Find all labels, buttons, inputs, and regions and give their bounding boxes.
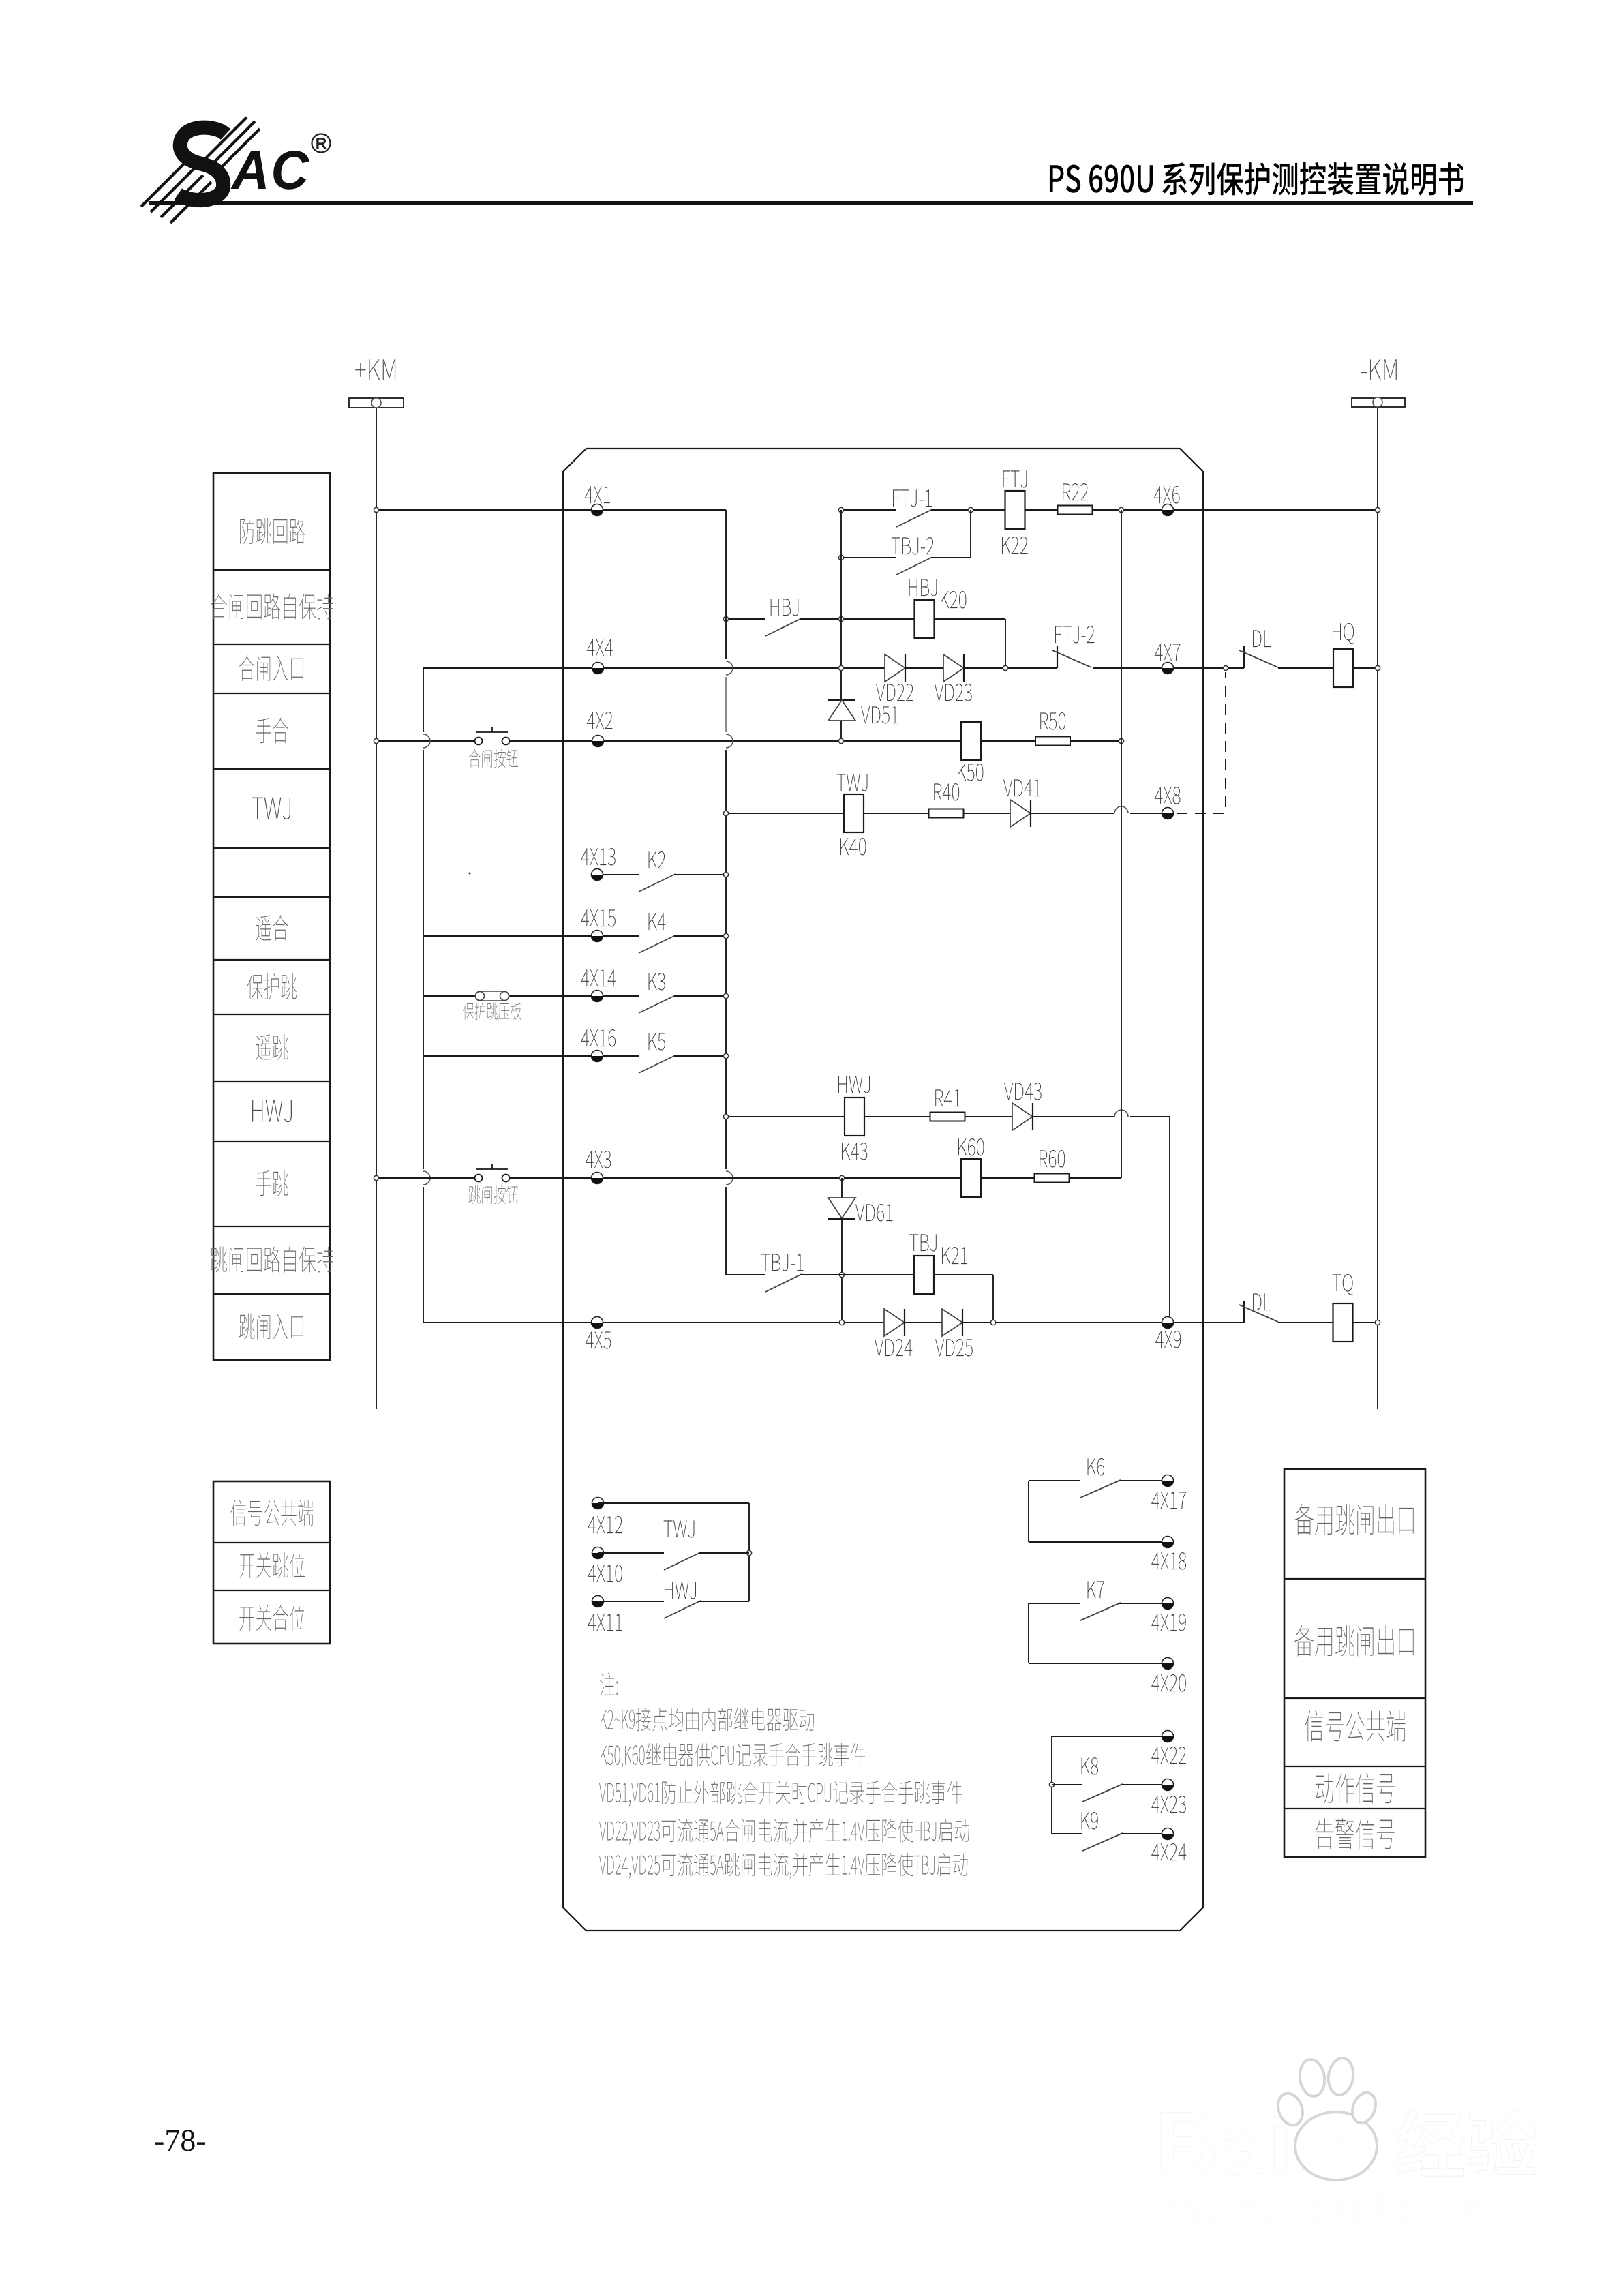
terminal 4X11 bbox=[592, 1596, 604, 1607]
logo (R) mark bbox=[312, 134, 331, 153]
diode VD22 bbox=[885, 654, 905, 682]
label VD23 bbox=[935, 684, 972, 701]
push button 跳闸按钮 bbox=[475, 1175, 483, 1182]
left label 手合 bbox=[256, 717, 288, 743]
relay coil TQ bbox=[1333, 1303, 1353, 1342]
wire FTJ coil to R22 bbox=[1025, 509, 1059, 511]
wire x621 riser upper bbox=[423, 668, 424, 732]
junction row C x1234 bbox=[838, 616, 843, 621]
label 4X6 bbox=[1154, 486, 1180, 504]
label DL trip bbox=[1253, 1293, 1271, 1310]
terminal 4X1 bbox=[592, 504, 603, 516]
wire +KM to 4X1 to corner bbox=[376, 509, 726, 511]
wire FTJ-1 to FTJ coil bbox=[931, 509, 1005, 511]
left column separator bbox=[213, 896, 330, 898]
junction row K x1065 bbox=[723, 1114, 728, 1119]
left column separator bbox=[213, 847, 330, 849]
wire R22 to -KM bbox=[1093, 509, 1378, 511]
right label column box bbox=[1284, 1469, 1425, 1857]
junction DL link top bbox=[1224, 666, 1228, 671]
logo hatch bottom-left bbox=[141, 162, 186, 207]
left label TWJ bbox=[252, 798, 290, 820]
wire DL to TQ bbox=[1278, 1322, 1333, 1323]
wire VD25 to DL bbox=[962, 1322, 1244, 1323]
terminal 4X13 bbox=[592, 869, 603, 881]
terminal 4X6 bbox=[1162, 504, 1174, 516]
watermark jingyan.baidu.com bbox=[1154, 2192, 1499, 2229]
junction x1235 row M bbox=[839, 1272, 844, 1277]
wire VD41 to 4X8 bbox=[1031, 813, 1114, 814]
contact FTJ-2 bbox=[1057, 646, 1058, 668]
hop row F x1645 bbox=[1114, 806, 1128, 813]
junction row D -KM bbox=[1375, 665, 1380, 670]
wire TBJ-2 to riser bbox=[931, 557, 971, 558]
junction row N x1457 bbox=[990, 1320, 995, 1325]
label 开关跳位 bbox=[239, 1552, 305, 1578]
note line 2 bbox=[601, 1743, 865, 1769]
label 信号公共端 bbox=[231, 1500, 314, 1526]
relay coil HQ bbox=[1333, 649, 1353, 687]
wire K6 to 4X17 bbox=[1119, 1480, 1168, 1481]
contact HBJ bbox=[765, 618, 802, 636]
resistor R22 bbox=[1058, 506, 1093, 515]
wire K6 row bbox=[1029, 1480, 1080, 1481]
logo AC text bbox=[230, 151, 309, 190]
logo hatch top-right bbox=[202, 117, 247, 162]
contact K7 bbox=[1080, 1603, 1121, 1620]
label HQ bbox=[1333, 623, 1354, 644]
wire row K5 left bbox=[423, 1055, 639, 1057]
label 4X22 bbox=[1151, 1747, 1186, 1764]
device boundary box bbox=[563, 449, 1203, 1931]
wire TBJ-2 riser bbox=[970, 510, 971, 558]
wire x1716 riser down bbox=[1169, 1117, 1170, 1323]
wire 4X10 row right bbox=[699, 1552, 749, 1554]
wire x621 riser lower bbox=[423, 1187, 424, 1323]
watermark Bai bbox=[1161, 2109, 1286, 2174]
wire row A FTJ-1 section bbox=[841, 509, 896, 511]
terminal 4X4 bbox=[592, 663, 604, 674]
hop row K x1645 bbox=[1114, 1110, 1128, 1117]
label TWJ coil bbox=[837, 774, 868, 791]
label 动作信号 bbox=[1316, 1772, 1395, 1803]
wire row K3 left bbox=[423, 995, 639, 997]
label 4X8 bbox=[1155, 787, 1181, 804]
junction K8 tap bbox=[1049, 1782, 1054, 1787]
contact TBJ-2 bbox=[896, 557, 932, 575]
label 备用跳闸出口 1 bbox=[1294, 1504, 1413, 1535]
wire row K5 right bbox=[674, 1055, 726, 1057]
dashed DL linkage bbox=[1177, 672, 1226, 813]
terminal 4X5 bbox=[592, 1317, 603, 1329]
junction row B left bbox=[838, 555, 843, 560]
label 4X2 bbox=[587, 712, 613, 729]
label K40 bbox=[840, 838, 866, 856]
relay coil TBJ bbox=[914, 1256, 934, 1294]
note line 3 bbox=[599, 1781, 962, 1807]
junction row D x1475 bbox=[1003, 665, 1007, 670]
note heading bbox=[600, 1673, 618, 1696]
wire VD24-VD25 bbox=[905, 1322, 942, 1323]
junction row K2 x1065 bbox=[723, 872, 728, 877]
label 4X10 bbox=[588, 1565, 622, 1582]
label R22 bbox=[1063, 483, 1088, 500]
terminal 4X16 bbox=[592, 1051, 603, 1062]
junction row C x1065 bbox=[723, 616, 728, 621]
label TBJ coil bbox=[909, 1234, 936, 1251]
label VD24 bbox=[875, 1339, 912, 1356]
stray dot artifact bbox=[468, 872, 470, 874]
label K43 bbox=[842, 1143, 867, 1160]
label R50 bbox=[1040, 712, 1065, 730]
wire R41 to VD43 bbox=[965, 1116, 1012, 1117]
label 4X12 bbox=[588, 1516, 622, 1533]
relay coil K20 bbox=[915, 600, 935, 638]
wire TBJ-1 to TBJ bbox=[800, 1274, 914, 1275]
label 4X19 bbox=[1151, 1614, 1185, 1631]
left column separator bbox=[213, 959, 330, 961]
junction at +KM row A bbox=[374, 507, 378, 512]
label K22 bbox=[1002, 537, 1027, 554]
label HBJ coil bbox=[909, 579, 937, 596]
label K5 bbox=[649, 1033, 665, 1050]
contact K8 bbox=[1082, 1784, 1123, 1802]
contact DL (trip) bbox=[1243, 1301, 1245, 1323]
left label 合闸回路自保持 bbox=[211, 593, 333, 619]
contact K4 bbox=[639, 935, 676, 953]
label VD22 bbox=[876, 684, 913, 701]
wire x1645 riser bbox=[1121, 510, 1122, 1177]
terminal 4X17 bbox=[1162, 1475, 1174, 1487]
wire button to K60 bbox=[510, 1177, 962, 1179]
label FTJ-2 bbox=[1055, 626, 1094, 644]
wire row C left bbox=[726, 618, 765, 620]
resistor R50 bbox=[1035, 737, 1070, 746]
label 4X9 bbox=[1155, 1331, 1181, 1348]
label 4X14 bbox=[581, 969, 616, 986]
wire 4X11 row right bbox=[699, 1601, 749, 1602]
hop x1065 row L bbox=[726, 1171, 733, 1185]
hop x621 row E bbox=[423, 734, 430, 748]
junction row D x1234 bbox=[838, 665, 843, 670]
contact FTJ-1 bbox=[896, 509, 932, 527]
label K3 bbox=[649, 973, 665, 991]
label VD43 bbox=[1004, 1083, 1042, 1100]
wire K7 row bbox=[1029, 1603, 1080, 1604]
wire HQ to -KM bbox=[1353, 667, 1378, 669]
terminal 4X3 bbox=[592, 1173, 603, 1184]
+KM terminal bar bbox=[349, 398, 404, 408]
wire +KM to button bbox=[376, 740, 475, 742]
hop x1065 row E bbox=[726, 734, 733, 748]
terminal 4X23 bbox=[1162, 1779, 1174, 1791]
left label 防跳回路 bbox=[240, 518, 305, 544]
left label 跳闸回路自保持 bbox=[211, 1246, 333, 1272]
wire 4X22 row bbox=[1052, 1736, 1168, 1737]
wire R50 to x1645 bbox=[1070, 740, 1121, 742]
left label 跳闸入口 bbox=[239, 1313, 303, 1339]
watermark du bbox=[1304, 2127, 1359, 2163]
watermark paw pad bbox=[1295, 2112, 1377, 2180]
left column separator bbox=[213, 768, 330, 770]
note line 1 bbox=[601, 1708, 814, 1731]
wire K7 to 4X19 bbox=[1119, 1603, 1168, 1604]
push button 合闸按钮 bbox=[475, 738, 483, 745]
label K4 bbox=[649, 913, 666, 930]
junction position group bbox=[746, 1550, 751, 1555]
right column separator bbox=[1284, 1578, 1425, 1580]
contact TWJ position bbox=[664, 1552, 701, 1570]
wire R40 to VD41 bbox=[964, 813, 1010, 814]
header rule bbox=[149, 201, 1473, 205]
wire x1065 riser 4 bbox=[725, 1187, 727, 1275]
junction TBJ-2 riser top bbox=[968, 507, 973, 512]
hop x1065 row D bbox=[726, 661, 733, 675]
wire x1065 riser 2 bbox=[725, 677, 727, 732]
terminal 4X12 bbox=[592, 1498, 604, 1509]
label HBJ contact bbox=[771, 599, 799, 616]
wire TQ to -KM bbox=[1352, 1322, 1378, 1323]
wire VD22-VD23 bbox=[905, 667, 943, 669]
label K9 bbox=[1082, 1812, 1098, 1830]
label TQ bbox=[1333, 1274, 1353, 1295]
label K7 bbox=[1088, 1581, 1104, 1598]
right column separator bbox=[1284, 1766, 1425, 1767]
wire row M left bbox=[726, 1274, 765, 1275]
wire x1234 riser bbox=[840, 510, 842, 700]
label K50 bbox=[958, 764, 983, 781]
junction row N x1235 bbox=[839, 1320, 844, 1325]
wire 4X18 row bbox=[1029, 1541, 1168, 1543]
wire TBJ riser down bbox=[992, 1275, 994, 1323]
label K21 bbox=[942, 1247, 967, 1264]
label VD41 bbox=[1003, 779, 1040, 796]
+KM rail wire bbox=[376, 408, 377, 1409]
label FTJ-1 bbox=[893, 489, 932, 507]
contact K6 bbox=[1080, 1480, 1121, 1498]
junction row E x1234 bbox=[838, 738, 843, 743]
terminal 4X7 bbox=[1162, 663, 1174, 674]
left label 遥合 bbox=[256, 915, 288, 941]
label 4X17 bbox=[1151, 1492, 1186, 1509]
label K6 bbox=[1088, 1458, 1104, 1476]
wire row F left bbox=[726, 813, 844, 814]
junction row A x1645 bbox=[1119, 507, 1123, 512]
contact K3 bbox=[639, 995, 676, 1013]
wire x1235 bottom bbox=[841, 1219, 843, 1323]
watermark toes bbox=[1274, 2090, 1307, 2129]
label 4X7 bbox=[1155, 644, 1181, 661]
left label column box bbox=[213, 473, 330, 1360]
wire VD43 to corner bbox=[1033, 1116, 1114, 1117]
diode VD43 bbox=[1012, 1103, 1033, 1130]
wire K7 bracket bbox=[1028, 1603, 1029, 1663]
terminal 4X14 bbox=[592, 991, 603, 1002]
diode VD25 bbox=[942, 1309, 962, 1336]
left label 遥跳 bbox=[256, 1034, 288, 1060]
separator bbox=[213, 1542, 330, 1543]
label 跳闸按钮 bbox=[469, 1185, 519, 1204]
contact DL (close) bbox=[1243, 646, 1245, 668]
-KM rail wire bbox=[1377, 407, 1378, 1409]
junction row L x1235 bbox=[839, 1175, 844, 1180]
contact TBJ-1 bbox=[765, 1274, 802, 1292]
wire 4X20 row bbox=[1029, 1663, 1168, 1664]
label 4X11 bbox=[588, 1614, 622, 1631]
wire row K left bbox=[726, 1116, 845, 1117]
diode VD41 bbox=[1010, 800, 1031, 827]
left column separator bbox=[213, 693, 330, 694]
wire HWJ to R41 bbox=[864, 1116, 930, 1117]
resistor R40 bbox=[929, 809, 964, 818]
left label 保护跳 bbox=[247, 973, 297, 999]
relay coil K60 bbox=[961, 1159, 981, 1197]
terminal 4X10 bbox=[592, 1547, 604, 1559]
wire x621 riser mid bbox=[423, 750, 424, 1169]
wire x1065 riser 1 bbox=[725, 510, 727, 659]
label 开关合位 bbox=[239, 1605, 305, 1631]
diode VD61 bbox=[828, 1198, 855, 1218]
label 保护跳压板 bbox=[463, 1003, 521, 1020]
label 4X5 bbox=[586, 1331, 611, 1348]
wire x1065 riser 3 bbox=[725, 750, 727, 1169]
terminal 4X19 bbox=[1162, 1598, 1174, 1610]
contact K9 bbox=[1082, 1833, 1123, 1851]
label R60 bbox=[1040, 1150, 1065, 1168]
label 4X13 bbox=[581, 848, 615, 866]
label 4X24 bbox=[1151, 1843, 1186, 1860]
wire 4X11 row left bbox=[598, 1601, 664, 1602]
diode VD51 bbox=[828, 699, 855, 701]
relay coil FTJ bbox=[1005, 491, 1025, 529]
label VD25 bbox=[935, 1339, 973, 1357]
junction row K5 x1065 bbox=[723, 1053, 728, 1058]
terminal 4X24 bbox=[1162, 1828, 1174, 1840]
label 告警信号 bbox=[1316, 1818, 1395, 1849]
wire row K4 left bbox=[423, 935, 639, 937]
-KM terminal bar bbox=[1352, 398, 1405, 407]
label K2 bbox=[649, 851, 665, 868]
contact K5 bbox=[639, 1055, 676, 1073]
wire K8K9 bracket bbox=[1051, 1736, 1052, 1834]
left label HWJ bbox=[252, 1100, 292, 1123]
terminal 4X15 bbox=[592, 931, 603, 942]
label 4X18 bbox=[1151, 1552, 1186, 1569]
wire position group riser bbox=[748, 1503, 750, 1601]
wire K8 to 4X23 bbox=[1121, 1784, 1168, 1785]
terminal 4X18 bbox=[1162, 1537, 1174, 1548]
wire K9 to 4X24 bbox=[1121, 1833, 1168, 1834]
junction row K4 x1065 bbox=[723, 933, 728, 938]
resistor R41 bbox=[930, 1113, 965, 1121]
wire x1645 corner join bbox=[1121, 1177, 1122, 1178]
hop x621 row L bbox=[423, 1171, 430, 1185]
wire K6 bracket bbox=[1028, 1481, 1029, 1542]
junction row N -KM bbox=[1375, 1320, 1380, 1325]
terminal 4X9 bbox=[1162, 1317, 1174, 1329]
wire TBJ to riser bbox=[934, 1274, 993, 1275]
wire HBJ to K20 bbox=[800, 618, 915, 620]
wire 4X4 corner bbox=[423, 667, 885, 669]
contact K2 bbox=[639, 874, 676, 892]
junction row A left bbox=[838, 507, 843, 512]
diode VD23 bbox=[943, 654, 964, 682]
wire x1234 below VD51 bbox=[840, 721, 842, 741]
wire row K2 right bbox=[674, 874, 726, 875]
junction row K3 x1065 bbox=[723, 993, 728, 998]
wire row K4 right bbox=[674, 935, 726, 937]
wire row K3 right bbox=[674, 995, 726, 997]
wire row K2 left bbox=[597, 874, 639, 875]
junction at +KM row L bbox=[374, 1175, 378, 1180]
wire hop to 4X8 bbox=[1130, 813, 1168, 814]
terminal 4X22 bbox=[1162, 1731, 1174, 1742]
label 4X15 bbox=[581, 909, 616, 926]
label TWJ position bbox=[664, 1520, 695, 1537]
label FTJ bbox=[1003, 470, 1027, 487]
separator bbox=[213, 1590, 330, 1591]
left column separator bbox=[213, 644, 330, 645]
wire DL to HQ bbox=[1278, 667, 1333, 669]
label 4X3 bbox=[586, 1151, 611, 1168]
wire K8 row left bbox=[1052, 1784, 1082, 1785]
left column separator bbox=[213, 1293, 330, 1295]
diode VD24 bbox=[884, 1309, 905, 1336]
wire x1235 top bbox=[841, 1178, 843, 1198]
label VD51 bbox=[861, 706, 898, 723]
junction at +KM row E bbox=[374, 738, 378, 743]
right column separator bbox=[1284, 1697, 1425, 1699]
wire button to K50 bbox=[510, 740, 962, 742]
label 合闸按钮 bbox=[469, 749, 518, 768]
label TBJ-1 bbox=[761, 1254, 804, 1271]
wire K9 row left bbox=[1052, 1833, 1082, 1834]
label 4X1 bbox=[585, 486, 610, 503]
wire K20 to riser bbox=[935, 618, 1006, 620]
label 4X16 bbox=[581, 1029, 616, 1047]
label R41 bbox=[935, 1089, 960, 1106]
-KM label bbox=[1361, 359, 1397, 380]
wire FTJ-2 to DL bbox=[1093, 667, 1244, 669]
label 4X23 bbox=[1151, 1796, 1185, 1813]
label TBJ-2 bbox=[892, 537, 934, 555]
label K20 bbox=[941, 591, 966, 609]
right column separator bbox=[1284, 1808, 1425, 1809]
page number -78- bbox=[155, 2130, 205, 2151]
wire 4X12 row bbox=[598, 1502, 749, 1504]
signal common column box bbox=[213, 1481, 330, 1644]
note line 4 bbox=[599, 1819, 969, 1845]
label R40 bbox=[934, 783, 959, 801]
junction row A -KM bbox=[1375, 507, 1380, 512]
wire K20 riser down bbox=[1005, 619, 1006, 668]
label 4X4 bbox=[587, 639, 613, 656]
label HWJ position bbox=[665, 1582, 696, 1599]
left label 手跳 bbox=[256, 1170, 288, 1196]
terminal 4X8 bbox=[1162, 808, 1174, 819]
left column separator bbox=[213, 1226, 330, 1227]
junction row E x1645 bbox=[1119, 738, 1123, 743]
terminal 4X20 bbox=[1162, 1658, 1174, 1670]
wire 4X5 row bbox=[423, 1322, 884, 1323]
label 备用跳闸出口 2 bbox=[1294, 1625, 1413, 1656]
label DL close bbox=[1253, 630, 1271, 647]
label 信号公共端 right bbox=[1305, 1710, 1405, 1741]
wire hop to corner x1716 bbox=[1130, 1116, 1170, 1117]
relay coil K50 bbox=[961, 722, 981, 760]
label VD61 bbox=[855, 1204, 892, 1222]
logo S stroke bbox=[178, 127, 226, 200]
